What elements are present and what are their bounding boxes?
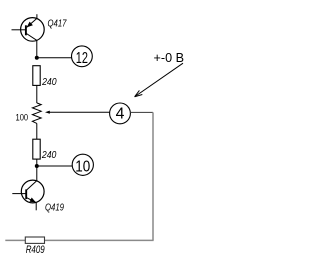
wire emitter stub Q417 [36,14,38,18]
node 4 [110,103,131,124]
wire R409 left stub (gray) [5,239,25,241]
junction dot 2 [35,164,39,168]
transistor Q417 [12,18,45,42]
wire Q419 emitter stub [35,202,37,210]
transistor Q419 [12,180,44,203]
wire node to Q419 [36,166,38,181]
svg-text:10: 10 [75,159,90,176]
svg-text:R409: R409 [26,244,45,256]
wire potentiometer to resistor [36,123,38,139]
svg-text:100: 100 [16,112,29,123]
svg-text:Q417: Q417 [48,18,67,29]
resistor R409 [25,237,44,243]
wire node 4 to corner (gray) [130,111,153,113]
potentiometer wiper arrow [45,111,110,114]
wire resistor to potentiometer [36,85,38,103]
svg-text:240: 240 [41,150,57,161]
svg-text:4: 4 [116,106,125,123]
node 10 [72,154,93,175]
svg-text:Q419: Q419 [45,203,64,214]
node 12 [72,46,93,67]
wire right vertical (gray) [152,112,154,240]
svg-text:240: 240 [41,77,57,88]
svg-text:12: 12 [76,50,88,67]
wire resistor to node [36,159,38,166]
resistor 240 (upper) [33,66,40,86]
wire bottom horizontal (gray) [45,239,154,241]
wire Q417 collector to node [36,40,38,58]
svg-text:+-0 В: +-0 В [154,51,185,65]
annotation arrow [135,63,183,97]
resistor 240 (lower) [33,139,40,159]
junction dot 1 [35,56,39,60]
wire node to pin 10 [37,165,72,167]
potentiometer 100 zigzag [32,103,41,124]
wire node to pin 12 [37,57,72,59]
